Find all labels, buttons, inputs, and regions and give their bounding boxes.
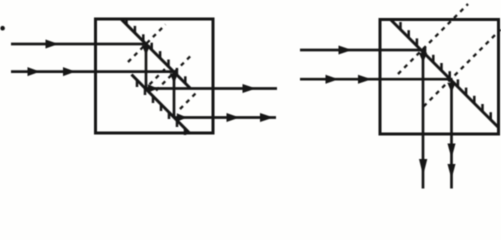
right cube outline	[380, 20, 499, 135]
left input beam 2 arrowhead a	[28, 67, 41, 76]
right drop 2 arrowhead a	[448, 144, 456, 159]
mirror M3 hatching	[401, 22, 491, 120]
output 2 small arrowhead	[177, 113, 187, 122]
mirror M1 (upper diagonal, left cube)	[121, 19, 190, 88]
dashed normal at M2 reflection 1	[150, 68, 167, 85]
dashed normal at M1 reflection 1	[128, 25, 166, 63]
mirror M2 hatching	[137, 80, 185, 135]
drop 2 small arrowhead	[170, 73, 178, 83]
left cube outline	[96, 19, 214, 133]
right input beam 2	[300, 78, 453, 81]
right drop 2 arrowhead b	[448, 164, 456, 179]
right beam 1 arrowhead	[339, 46, 353, 55]
right vertical beam 1 (down)	[422, 50, 425, 189]
left output beam 2	[174, 116, 276, 119]
output 1 small arrowhead	[148, 84, 158, 93]
left input beam 2 arrowhead b	[63, 67, 76, 76]
left input beam 2	[11, 70, 175, 73]
dashed normal through right reflection 2	[424, 30, 501, 107]
dashed normal through right reflection 1	[398, 4, 468, 74]
right drop 2 small arrowhead	[447, 83, 455, 93]
left vertical beam 1 (drop)	[145, 44, 148, 89]
dashed normal at M2 reflection 2	[180, 93, 197, 110]
output 1 arrowhead	[243, 84, 257, 93]
right input beam 1	[300, 49, 424, 52]
right beam 2 arrowhead a	[326, 75, 339, 84]
left input beam 1 arrowhead	[46, 40, 59, 49]
right beam 2 arrowhead b	[358, 75, 372, 84]
output 2 arrowhead b	[260, 113, 274, 122]
output 2 arrowhead a	[227, 113, 240, 122]
mirror M2 (lower diagonal, left cube)	[132, 75, 190, 134]
left input beam 1	[11, 43, 147, 46]
drop 1 small arrowhead	[142, 45, 150, 55]
right drop 1 small arrowhead	[419, 53, 427, 63]
dashed normal at M1 reflection 2	[156, 55, 192, 91]
right vertical beam 2 (down)	[450, 79, 453, 188]
left vertical beam 2 (drop)	[173, 72, 176, 118]
stray dot	[0, 26, 5, 31]
mirror M1 hatching	[127, 18, 186, 84]
mirror M3 (diagonal, right cube)	[391, 20, 499, 128]
left output beam 1	[146, 87, 277, 90]
right drop 1 arrowhead	[419, 159, 427, 176]
